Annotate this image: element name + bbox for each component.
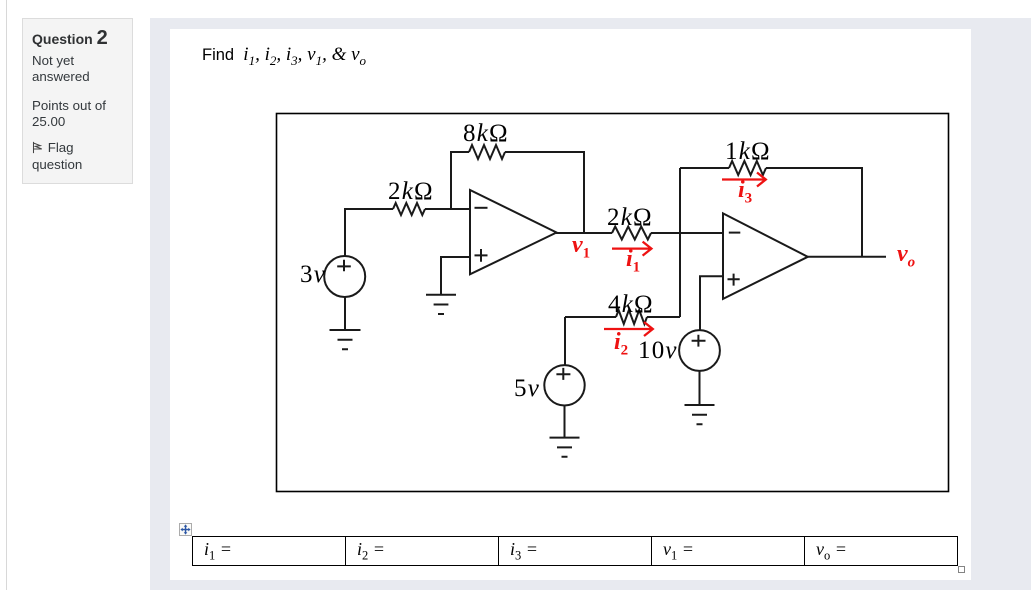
ground V2 [550,438,580,457]
U1 minus label [475,207,488,209]
svg-text:i3: i3 [738,177,752,207]
svg-text:v1: v1 [572,232,590,262]
wire node B vertical [679,168,681,317]
table move handle icon [179,523,192,536]
current arrow i1 [612,242,651,256]
voltage source V3 10v [679,330,720,371]
svg-text:2kΩ: 2kΩ [388,178,434,205]
op-amp U1 [470,190,557,274]
svg-text:1kΩ: 1kΩ [725,138,771,165]
svg-text:5v: 5v [514,375,540,402]
svg-text:8kΩ: 8kΩ [463,120,509,147]
ground U1 plus [426,295,456,314]
table resize handle [958,566,965,573]
wire V1 top to R1 [345,209,393,256]
svg-text:i1: i1 [626,246,640,276]
wire U1 output to R3 [556,232,612,234]
white content card [170,29,971,580]
ground V1 [330,330,361,349]
svg-text:i2: i2 [614,329,628,359]
wire node B to R5 [680,167,729,169]
svg-text:2kΩ: 2kΩ [607,204,653,231]
resistor R3 2k [612,227,651,240]
voltage source V1 3v [324,256,365,297]
svg-text:vo: vo [897,241,915,271]
wire R5 to output vo [766,168,862,257]
resistor R2 8k [469,145,505,159]
answer table [192,536,958,566]
wire U2 plus input to V3 [700,276,723,330]
current arrow i2 [604,322,653,336]
svg-text:10v: 10v [638,337,678,364]
wire V2 top [564,317,566,365]
V3 plus sign [692,335,706,347]
wire V2 bottom [564,405,566,437]
resistor R4 4k [616,310,647,324]
resistor R5 1k [729,161,766,175]
wire V3 bottom [699,371,701,405]
U2 plus label [728,274,740,286]
wire U1 plus input to ground [441,257,470,294]
wire R2 to output node [505,152,584,233]
wire R1 to U1 minus input [425,208,470,210]
left page divider line [6,0,7,590]
V2 plus sign [556,368,570,380]
wire R3 to U2 minus input [651,232,723,234]
wire V1 bottom [344,297,346,330]
wire U2 output [807,256,887,258]
svg-text:4kΩ: 4kΩ [608,291,654,318]
U2 minus label [729,232,741,234]
voltage source V2 5v [544,365,584,405]
question title: Find i1, i2, i3, v1, & vo [202,44,366,69]
resistor R1 2k [393,203,425,215]
op-amp U2 [723,213,808,299]
wire R4 to node B [647,316,680,318]
current arrow i3 [722,173,766,187]
ground V3 [685,405,715,424]
svg-text:3v: 3v [300,261,326,288]
wire 4k branch [565,316,616,318]
V1 plus sign [337,260,351,272]
question info box [22,18,133,184]
wire feedback node up [451,152,469,209]
U1 plus label [475,249,488,262]
